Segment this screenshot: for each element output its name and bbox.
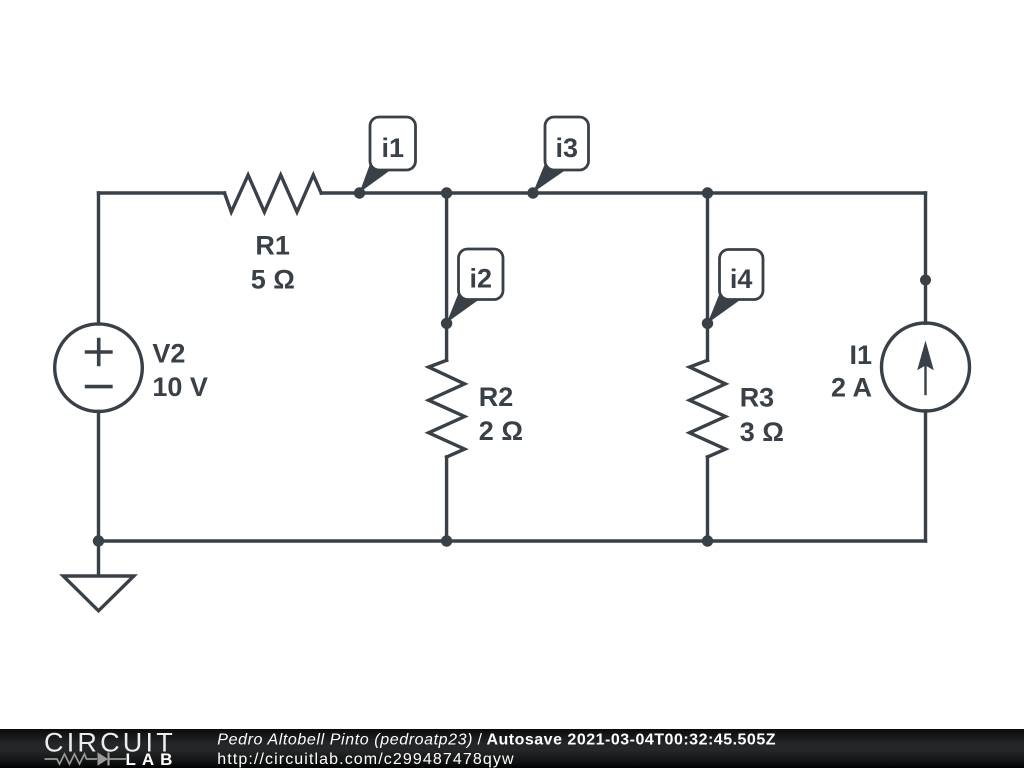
node i3 dot <box>527 187 538 198</box>
wire R2 bottom lead <box>445 457 448 541</box>
svg-text:2 Ω: 2 Ω <box>479 416 523 446</box>
svg-text:i2: i2 <box>470 264 493 294</box>
svg-text:R2: R2 <box>479 382 514 412</box>
probe callout i1 box <box>370 117 416 170</box>
svg-text:LAB: LAB <box>126 750 179 768</box>
junction dot top at R3 branch <box>702 187 713 198</box>
probe callout i3 box <box>545 117 589 170</box>
current source I1 circle <box>882 323 970 411</box>
probe callout i4 tail <box>708 290 740 323</box>
probe callout i3 tail <box>533 160 565 193</box>
logo diode triangle <box>98 752 109 766</box>
svg-text:http://circuitlab.com/c2994874: http://circuitlab.com/c299487478qyw <box>217 751 514 768</box>
wire I1 top lead <box>924 193 927 323</box>
svg-text:R3: R3 <box>740 383 775 413</box>
I1 arrow shaft <box>924 364 926 394</box>
svg-text:Pedro Altobell Pinto (pedroatp: Pedro Altobell Pinto (pedroatp23) / Auto… <box>217 731 776 748</box>
probe callout i2 tail <box>447 290 478 323</box>
ground symbol <box>63 576 134 611</box>
resistor R1 <box>225 175 322 212</box>
node dot above I1 <box>920 275 931 286</box>
V2 minus sign <box>85 385 113 389</box>
wire top middle segment <box>321 191 925 194</box>
resistor R3 <box>690 360 726 457</box>
junction dot top at R2 branch <box>441 187 452 198</box>
svg-text:i3: i3 <box>556 133 579 163</box>
node i1 dot <box>354 187 365 198</box>
wire bottom horizontal <box>99 539 926 542</box>
probe callout i4 box <box>720 250 764 300</box>
logo resistor-diode symbol <box>45 753 127 766</box>
voltage source V2 circle <box>55 324 143 412</box>
wire I1 bottom lead <box>924 411 927 541</box>
svg-text:R1: R1 <box>255 230 290 260</box>
probe callout i2 box <box>459 249 504 300</box>
junction dot bottom at R2 branch <box>441 535 452 546</box>
I1 arrowhead <box>917 341 934 371</box>
wire left vertical (V2 top lead) <box>97 193 100 324</box>
junction dot bottom-left ground <box>93 535 104 546</box>
wire R3 top lead <box>706 193 709 360</box>
wire top-left horizontal segment <box>99 191 225 194</box>
resistor R2 <box>429 360 465 457</box>
probe callout i1 tail <box>360 160 390 193</box>
wire R2 top lead <box>445 193 448 360</box>
wire V2 bottom lead <box>97 412 100 542</box>
svg-text:10 V: 10 V <box>152 372 208 402</box>
footer bar <box>0 729 1024 768</box>
node i2 dot <box>441 318 452 329</box>
svg-text:V2: V2 <box>152 338 185 368</box>
svg-text:i1: i1 <box>382 133 405 163</box>
svg-text:I1: I1 <box>849 340 872 370</box>
svg-text:2 A: 2 A <box>831 373 872 403</box>
node i4 dot <box>702 318 713 329</box>
V2 plus sign <box>85 338 113 366</box>
svg-text:i4: i4 <box>730 264 753 294</box>
svg-text:5 Ω: 5 Ω <box>251 264 295 294</box>
wire R3 bottom lead <box>706 457 709 541</box>
svg-text:3 Ω: 3 Ω <box>740 417 784 447</box>
junction dot bottom at R3 branch <box>702 535 713 546</box>
wire ground stub <box>97 541 100 575</box>
